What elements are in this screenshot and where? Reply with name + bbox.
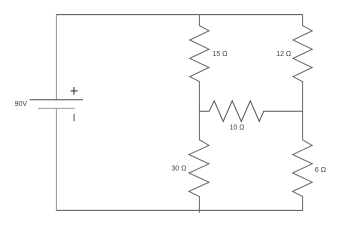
svg-text:30 Ω: 30 Ω <box>171 166 186 173</box>
svg-text:15 Ω: 15 Ω <box>213 51 228 58</box>
svg-text:10 Ω: 10 Ω <box>230 125 245 132</box>
svg-text:6 Ω: 6 Ω <box>315 167 326 174</box>
svg-text:90V: 90V <box>15 101 28 108</box>
svg-text:12 Ω: 12 Ω <box>276 51 291 58</box>
